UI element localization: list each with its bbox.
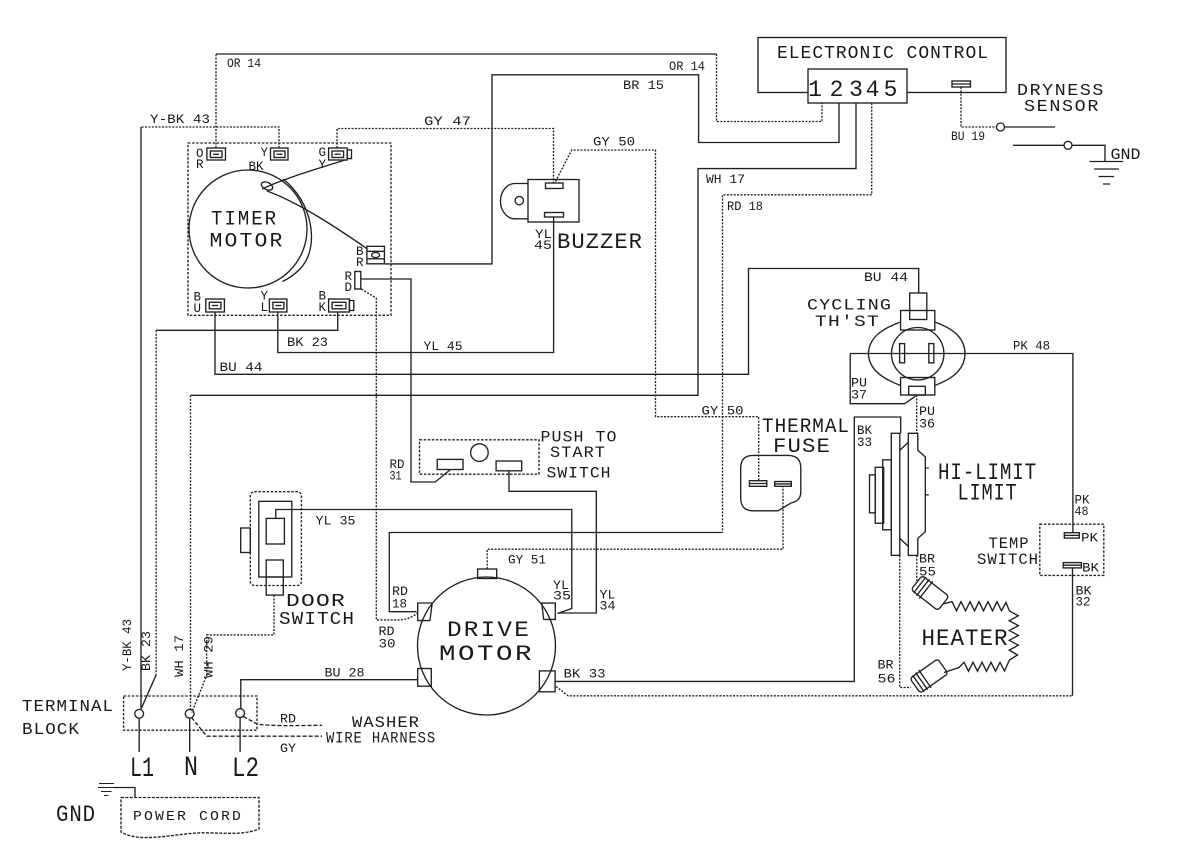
svg-text:BK: BK xyxy=(1082,561,1099,576)
buzzer xyxy=(500,180,643,256)
svg-text:OR 14: OR 14 xyxy=(669,59,705,74)
wire YL 45 (buzzer to timer YL) xyxy=(278,218,554,355)
svg-text:PK 48: PK 48 xyxy=(1013,339,1050,354)
wire GY 47 xyxy=(337,114,554,183)
svg-text:GY 47: GY 47 xyxy=(424,114,471,129)
svg-text:TIMER: TIMER xyxy=(211,209,278,232)
wire RD 31 (timer RD to push-to-start switch) xyxy=(361,279,451,484)
timer terminal Y L xyxy=(261,290,287,316)
wire RD 18 (from control terminal 4 to drive motor) xyxy=(389,103,871,612)
svg-text:2: 2 xyxy=(830,77,844,103)
wire BR 55 (hi-limit to heater) xyxy=(917,552,936,582)
wire YL 35 (door switch to drive motor) xyxy=(276,510,572,614)
svg-text:BK 33: BK 33 xyxy=(564,667,606,682)
timer cam follower loop xyxy=(260,180,274,192)
svg-text:BU 19: BU 19 xyxy=(951,129,985,144)
svg-text:L: L xyxy=(261,301,269,315)
svg-text:BK 23: BK 23 xyxy=(139,631,154,671)
wire BK 33 (drive motor to hi-limit) xyxy=(555,417,901,682)
timer terminal Y BK xyxy=(249,146,289,174)
svg-text:DRIVE: DRIVE xyxy=(447,618,531,643)
hi-limit thermostat xyxy=(870,433,1038,555)
heater plug BR 56 xyxy=(909,657,949,695)
svg-text:BR: BR xyxy=(878,658,894,673)
svg-text:N: N xyxy=(184,753,198,784)
ground (dryness sensor) xyxy=(1090,146,1141,184)
wire BK 23 (timer BK to terminal L1) xyxy=(139,312,338,708)
svg-text:ELECTRONIC CONTROL: ELECTRONIC CONTROL xyxy=(777,44,989,64)
node L1 xyxy=(130,718,154,785)
svg-text:TH'ST: TH'ST xyxy=(815,313,880,331)
svg-text:OR 14: OR 14 xyxy=(227,56,261,71)
timer terminal G Y xyxy=(319,146,352,172)
cycling thermostat xyxy=(807,293,965,395)
timer curve to GY terminal xyxy=(262,160,345,189)
svg-text:18: 18 xyxy=(392,597,407,612)
svg-text:34: 34 xyxy=(600,599,616,614)
svg-text:SENSOR: SENSOR xyxy=(1024,98,1100,117)
svg-text:DOOR: DOOR xyxy=(286,592,346,612)
washer wire harness GY xyxy=(192,714,437,756)
wire YL 34 (push-to-start to drive motor) xyxy=(509,471,616,614)
svg-text:31: 31 xyxy=(390,469,402,484)
svg-text:BU 44: BU 44 xyxy=(864,270,908,285)
svg-text:GY 51: GY 51 xyxy=(508,553,546,568)
svg-text:Y: Y xyxy=(319,158,327,172)
svg-text:SWITCH: SWITCH xyxy=(977,551,1039,569)
svg-text:L2: L2 xyxy=(232,754,259,785)
wire BU 19 xyxy=(951,87,997,144)
svg-text:K: K xyxy=(319,301,327,315)
wire WH 17 (from control terminal 3) xyxy=(172,103,856,710)
svg-text:RD 18: RD 18 xyxy=(727,199,763,214)
svg-text:GND: GND xyxy=(56,802,96,828)
drive motor xyxy=(418,569,556,715)
svg-text:WH 17: WH 17 xyxy=(706,172,745,187)
temp switch xyxy=(977,524,1104,575)
ground (power cord) xyxy=(56,784,135,829)
svg-text:Y-BK 43: Y-BK 43 xyxy=(120,619,135,671)
svg-text:R: R xyxy=(196,158,204,172)
svg-text:5: 5 xyxy=(884,77,898,103)
push to start switch xyxy=(420,429,618,483)
svg-text:LIMIT: LIMIT xyxy=(958,481,1018,507)
svg-text:35: 35 xyxy=(553,589,571,604)
timer terminal R D xyxy=(345,270,361,295)
wire WH 29 (door switch to terminal N) xyxy=(192,595,274,713)
svg-text:GY 50: GY 50 xyxy=(702,404,744,419)
svg-text:4: 4 xyxy=(866,77,880,103)
connector to dryness sensor xyxy=(952,81,971,87)
timer terminal O R xyxy=(196,147,226,172)
wire BR 15 xyxy=(385,75,839,264)
svg-text:33: 33 xyxy=(857,435,872,450)
svg-text:MOTOR: MOTOR xyxy=(210,231,285,254)
svg-text:L1: L1 xyxy=(130,754,154,785)
svg-text:BLOCK: BLOCK xyxy=(22,721,80,740)
svg-text:R: R xyxy=(356,256,364,270)
svg-text:GY: GY xyxy=(280,741,296,756)
svg-text:GND: GND xyxy=(1111,146,1141,164)
svg-text:D: D xyxy=(345,281,353,295)
node N xyxy=(184,718,198,784)
svg-text:BK: BK xyxy=(249,160,264,174)
electronic control U1 xyxy=(758,38,1006,104)
wire BU 28 (terminal L2 to drive motor) xyxy=(241,666,418,710)
door switch xyxy=(241,492,355,630)
timer terminal B R xyxy=(356,245,384,270)
dryness sensor xyxy=(997,82,1106,161)
svg-text:1: 1 xyxy=(808,77,822,103)
wire OR 14 xyxy=(216,54,822,148)
svg-text:BU 28: BU 28 xyxy=(325,666,365,681)
svg-text:TERMINAL: TERMINAL xyxy=(22,698,114,717)
svg-text:36: 36 xyxy=(919,417,935,432)
terminal block xyxy=(22,696,257,740)
svg-text:BR 15: BR 15 xyxy=(623,78,664,93)
svg-text:WH 29: WH 29 xyxy=(202,636,217,678)
svg-text:Y: Y xyxy=(261,146,269,160)
power cord xyxy=(121,798,259,838)
svg-text:SWITCH: SWITCH xyxy=(547,465,612,483)
svg-text:CYCLING: CYCLING xyxy=(807,297,892,315)
timer motor rotor circle xyxy=(189,170,307,288)
svg-text:START: START xyxy=(550,444,606,462)
timer lens curve xyxy=(283,179,312,282)
svg-text:POWER CORD: POWER CORD xyxy=(133,809,243,825)
svg-text:56: 56 xyxy=(878,672,896,687)
heater plug BR 55 xyxy=(910,574,950,612)
wire PU 36 (cycling thermostat to hi-limit) xyxy=(917,395,935,433)
svg-text:U: U xyxy=(194,302,202,316)
svg-text:SWITCH: SWITCH xyxy=(279,610,355,630)
svg-text:BUZZER: BUZZER xyxy=(557,230,643,255)
svg-text:48: 48 xyxy=(1075,504,1089,519)
wire BK 32 / motor node (temp switch to drive motor) xyxy=(556,568,1092,696)
svg-text:3: 3 xyxy=(849,77,863,103)
svg-text:RD: RD xyxy=(280,712,296,727)
svg-text:GY 50: GY 50 xyxy=(593,135,635,150)
wire GY 50 (buzzer to thermal fuse) xyxy=(556,135,759,481)
node L2 xyxy=(232,718,259,786)
timer curve to BR terminal xyxy=(267,191,368,249)
svg-text:BK 23: BK 23 xyxy=(287,335,328,350)
svg-text:YL 45: YL 45 xyxy=(424,339,463,354)
wire Y-BK 43 xyxy=(120,112,279,710)
svg-text:YL 35: YL 35 xyxy=(316,514,356,529)
svg-text:MOTOR: MOTOR xyxy=(439,642,534,667)
svg-text:BU 44: BU 44 xyxy=(220,360,263,375)
svg-text:WH 17: WH 17 xyxy=(172,635,187,677)
svg-text:37: 37 xyxy=(851,388,867,403)
svg-text:WIRE HARNESS: WIRE HARNESS xyxy=(326,730,436,748)
thermal fuse xyxy=(741,416,850,511)
washer wire harness RD xyxy=(244,712,323,727)
svg-text:Y-BK 43: Y-BK 43 xyxy=(150,112,210,127)
wire GY 51 (drive motor to thermal fuse) xyxy=(487,487,783,570)
svg-text:30: 30 xyxy=(379,637,396,652)
timer terminal B K xyxy=(319,290,354,316)
wire BU 44 (timer BU to cycling thermostat) xyxy=(215,269,919,376)
svg-text:FUSE: FUSE xyxy=(773,436,831,459)
svg-text:HEATER: HEATER xyxy=(922,626,1009,652)
svg-text:45: 45 xyxy=(534,238,552,253)
timer terminal B U xyxy=(194,291,225,317)
wire PK 48 (cycling thermostat to temp switch) xyxy=(850,339,1089,533)
heater element xyxy=(922,602,1019,673)
wire PU 37 (cycling thermostat loop) xyxy=(850,354,915,404)
timer motor xyxy=(188,143,391,315)
wire RD 30 (timer RD to drive motor) xyxy=(361,289,418,652)
wire BR 56 (hi-limit to heater lower plug) xyxy=(878,555,912,687)
svg-text:PK: PK xyxy=(1081,531,1098,546)
svg-text:32: 32 xyxy=(1076,595,1091,610)
